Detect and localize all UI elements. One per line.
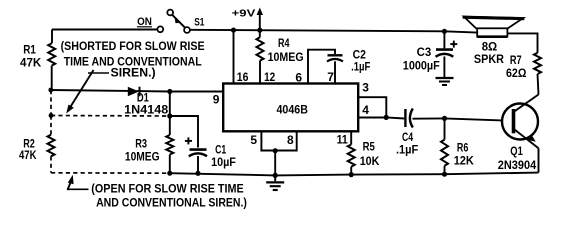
svg-text:C3: C3 — [417, 45, 432, 59]
svg-text:R4: R4 — [278, 36, 290, 50]
svg-text:47K: 47K — [20, 56, 42, 70]
svg-text:10µF: 10µF — [211, 155, 236, 169]
svg-text:SPKR: SPKR — [474, 52, 504, 66]
svg-text:9: 9 — [213, 92, 220, 106]
svg-text:47K: 47K — [19, 148, 37, 162]
svg-text:62Ω: 62Ω — [506, 66, 527, 80]
svg-text:Q1: Q1 — [510, 144, 523, 158]
svg-text:R6: R6 — [457, 140, 469, 154]
svg-text:R1: R1 — [23, 42, 36, 56]
svg-text:.1µF: .1µF — [351, 60, 370, 74]
svg-text:(OPEN FOR SLOW RISE TIME: (OPEN FOR SLOW RISE TIME — [91, 182, 243, 196]
svg-text:2N3904: 2N3904 — [498, 158, 537, 172]
svg-text:12: 12 — [264, 70, 275, 84]
svg-text:1N4148: 1N4148 — [124, 103, 168, 117]
svg-text:7: 7 — [327, 70, 334, 84]
svg-text:AND CONVENTIONAL SIREN.): AND CONVENTIONAL SIREN.) — [96, 196, 247, 210]
svg-text:10MEG: 10MEG — [268, 50, 304, 64]
svg-text:10K: 10K — [360, 154, 380, 168]
svg-text:5: 5 — [250, 133, 257, 147]
svg-text:1000µF: 1000µF — [403, 58, 440, 72]
svg-text:8: 8 — [287, 133, 294, 147]
svg-text:12K: 12K — [454, 153, 475, 167]
svg-text:R5: R5 — [363, 139, 375, 153]
svg-text:.1µF: .1µF — [396, 143, 418, 157]
svg-text:6: 6 — [295, 71, 302, 85]
svg-text:R3: R3 — [135, 136, 147, 150]
svg-text:11: 11 — [337, 133, 348, 147]
svg-text:10MEG: 10MEG — [125, 150, 160, 164]
svg-text:(SHORTED FOR SLOW RISE: (SHORTED FOR SLOW RISE — [61, 39, 205, 53]
svg-text:4: 4 — [362, 103, 369, 117]
svg-text:SIREN.): SIREN.) — [111, 66, 156, 80]
svg-text:4046B: 4046B — [277, 103, 309, 117]
svg-text:S1: S1 — [194, 17, 204, 29]
svg-text:+9V: +9V — [232, 8, 256, 20]
svg-text:16: 16 — [237, 70, 249, 84]
svg-text:3: 3 — [362, 81, 369, 95]
